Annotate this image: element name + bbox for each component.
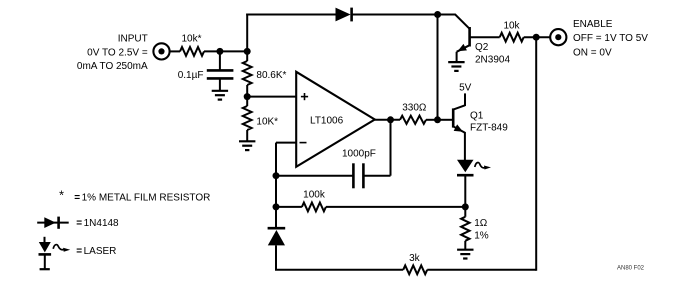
svg-text:10k*: 10k* <box>181 34 201 45</box>
svg-text:LASER: LASER <box>84 246 117 257</box>
svg-text:LT1006: LT1006 <box>310 116 344 127</box>
label 10K* <box>256 116 278 127</box>
node A (input RC junction) <box>216 48 223 55</box>
label LT1006 <box>310 116 344 127</box>
svg-text:5V: 5V <box>459 82 472 93</box>
label 330ohm <box>402 103 427 114</box>
label 100k <box>303 189 326 200</box>
wire laser cathode to node H <box>464 175 466 207</box>
node J (100k tap) <box>273 203 280 210</box>
wire node C to R 10K* <box>246 97 248 106</box>
wire node A to C 0.1uF <box>219 51 221 70</box>
wire R 10K* to ground <box>246 130 248 141</box>
wire D2 anode to bottom rail <box>275 245 403 269</box>
wire C 1000pF to node G <box>363 120 390 176</box>
label 10k* <box>181 34 201 45</box>
wire top rail right segment <box>352 14 438 16</box>
label 3k <box>409 253 421 264</box>
node I (1000pF tap) <box>273 172 280 179</box>
svg-text:ON = 0V: ON = 0V <box>573 47 612 58</box>
node H (laser / 1 ohm / 100k) <box>462 203 469 210</box>
svg-text:Q2: Q2 <box>475 42 489 53</box>
label 0.1uF <box>178 70 204 81</box>
resistor 10k* (input) <box>180 47 204 56</box>
diode D1 1N4148 (top rail) <box>336 8 352 22</box>
resistor 1ohm 1% <box>461 217 469 241</box>
wire node B up to top rail <box>246 14 248 53</box>
svg-text:1N4148: 1N4148 <box>84 218 119 229</box>
wire node B to R 80.6K* <box>246 51 248 61</box>
svg-text:AN80 F02: AN80 F02 <box>617 266 645 272</box>
svg-text:10k: 10k <box>503 20 520 31</box>
node F (Q1 base junction) <box>434 116 441 123</box>
node C (divider / +input) <box>244 93 251 100</box>
wire input to R 10k* <box>170 50 180 52</box>
label 1% <box>474 230 489 241</box>
wire node C to op-amp +input <box>247 96 296 98</box>
label 5V <box>459 82 472 93</box>
wire C 0.1uF to ground <box>219 78 221 90</box>
svg-text:1% METAL FILM RESISTOR: 1% METAL FILM RESISTOR <box>82 192 211 203</box>
legend diode symbol 1N4148 <box>37 217 68 229</box>
wire R 100k to node H <box>326 206 465 208</box>
wire -input down the left feedback rail <box>275 143 277 227</box>
wire Q2 base to R 10k <box>470 36 500 38</box>
resistor 80.6K* <box>243 61 252 85</box>
wire Q2 emitter to ground <box>456 52 458 62</box>
resistor 3k <box>403 265 427 274</box>
svg-text:OFF = 1V TO 5V: OFF = 1V TO 5V <box>573 33 648 44</box>
label 10k <box>503 20 520 31</box>
svg-text:3k: 3k <box>409 253 421 264</box>
svg-text:=: = <box>76 246 82 257</box>
svg-text:0.1µF: 0.1µF <box>178 70 204 81</box>
node D (top rail / Q2 collector) <box>434 11 441 18</box>
svg-text:1000pF: 1000pF <box>342 148 376 159</box>
resistor 10k (enable) <box>500 33 524 42</box>
wire node D down to node F <box>437 15 439 120</box>
figure tag AN80 F02 <box>617 266 645 272</box>
svg-text:1Ω: 1Ω <box>474 218 488 229</box>
svg-text:100k: 100k <box>303 189 326 200</box>
wire R 10k to enable terminal <box>524 36 551 38</box>
ground (below 10K*) <box>239 141 255 150</box>
resistor 100k <box>302 203 326 212</box>
laser diode LD1 <box>457 160 474 175</box>
input terminal J1 <box>153 43 169 59</box>
ground (Q2 emitter) <box>448 62 464 71</box>
legend asterisk note <box>59 188 210 204</box>
label Q1 <box>470 111 484 122</box>
node E (enable / bottom rail) <box>533 34 540 41</box>
wire node J to R 100k <box>276 206 302 208</box>
svg-text:=: = <box>74 192 80 203</box>
svg-text:Q1: Q1 <box>470 111 484 122</box>
svg-text:INPUT: INPUT <box>118 34 148 45</box>
legend laser beam squiggle <box>53 245 70 252</box>
transistor Q2 2N3904 <box>456 27 470 54</box>
wire node F to Q1 base <box>438 119 454 121</box>
label FZT-849 <box>470 122 508 133</box>
svg-text:330Ω: 330Ω <box>402 103 427 114</box>
op-amp U1 LT1006 <box>296 72 375 167</box>
label ENABLE block <box>573 19 648 59</box>
svg-text:1%: 1% <box>474 230 489 241</box>
wire node I to C 1000pF <box>276 175 353 177</box>
legend label LASER <box>76 246 116 257</box>
label Q2 <box>475 42 489 53</box>
label 80.6K* <box>256 70 286 81</box>
svg-text:0mA TO 250mA: 0mA TO 250mA <box>77 61 148 72</box>
svg-text:2N3904: 2N3904 <box>475 54 510 65</box>
svg-text:=: = <box>76 218 82 229</box>
wire R 330 to node F <box>426 119 438 121</box>
enable terminal J2 <box>550 29 566 45</box>
label 2N3904 <box>475 54 510 65</box>
svg-text:*: * <box>59 188 64 203</box>
label 1000pF <box>342 148 376 159</box>
wire node D to Q2 collector <box>438 15 470 29</box>
resistor 330ohm <box>400 116 426 124</box>
svg-text:80.6K*: 80.6K* <box>256 70 286 81</box>
svg-text:0V TO 2.5V =: 0V TO 2.5V = <box>87 47 148 58</box>
node G (output / 1000pF) <box>387 116 394 123</box>
legend label 1N4148 <box>76 218 119 229</box>
svg-text:ENABLE: ENABLE <box>573 19 613 30</box>
svg-text:10K*: 10K* <box>256 116 278 127</box>
transistor Q1 FZT-849 <box>453 93 465 135</box>
wire -input feedback to op-amp <box>276 142 296 144</box>
wire R 10k* to node B <box>204 50 247 52</box>
capacitor 1000pF <box>353 163 363 188</box>
wire Q1 emitter to laser anode <box>464 132 466 160</box>
resistor 10K* <box>243 106 252 130</box>
laser beam squiggle (LD1) <box>475 163 491 170</box>
svg-text:FZT-849: FZT-849 <box>470 122 508 133</box>
wire op-amp output to R 330 <box>375 119 400 121</box>
label INPUT block <box>77 34 148 72</box>
node B (R 10k* / R 80.6K / top wire) <box>244 48 251 55</box>
wire R 80.6K* to node C <box>246 85 248 97</box>
ground (below 1 ohm) <box>457 250 473 259</box>
wire R 1ohm to ground <box>464 241 466 250</box>
wire R 3k to enable rail <box>427 37 536 271</box>
capacitor 0.1uF <box>207 70 234 78</box>
diode D2 1N4148 (feedback clamp) <box>268 228 286 245</box>
label 1ohm <box>474 218 488 229</box>
legend laser symbol <box>39 237 52 269</box>
wire node H to R 1ohm <box>464 207 466 217</box>
wire top rail left segment <box>246 14 335 16</box>
ground (below 0.1uF) <box>212 91 228 100</box>
